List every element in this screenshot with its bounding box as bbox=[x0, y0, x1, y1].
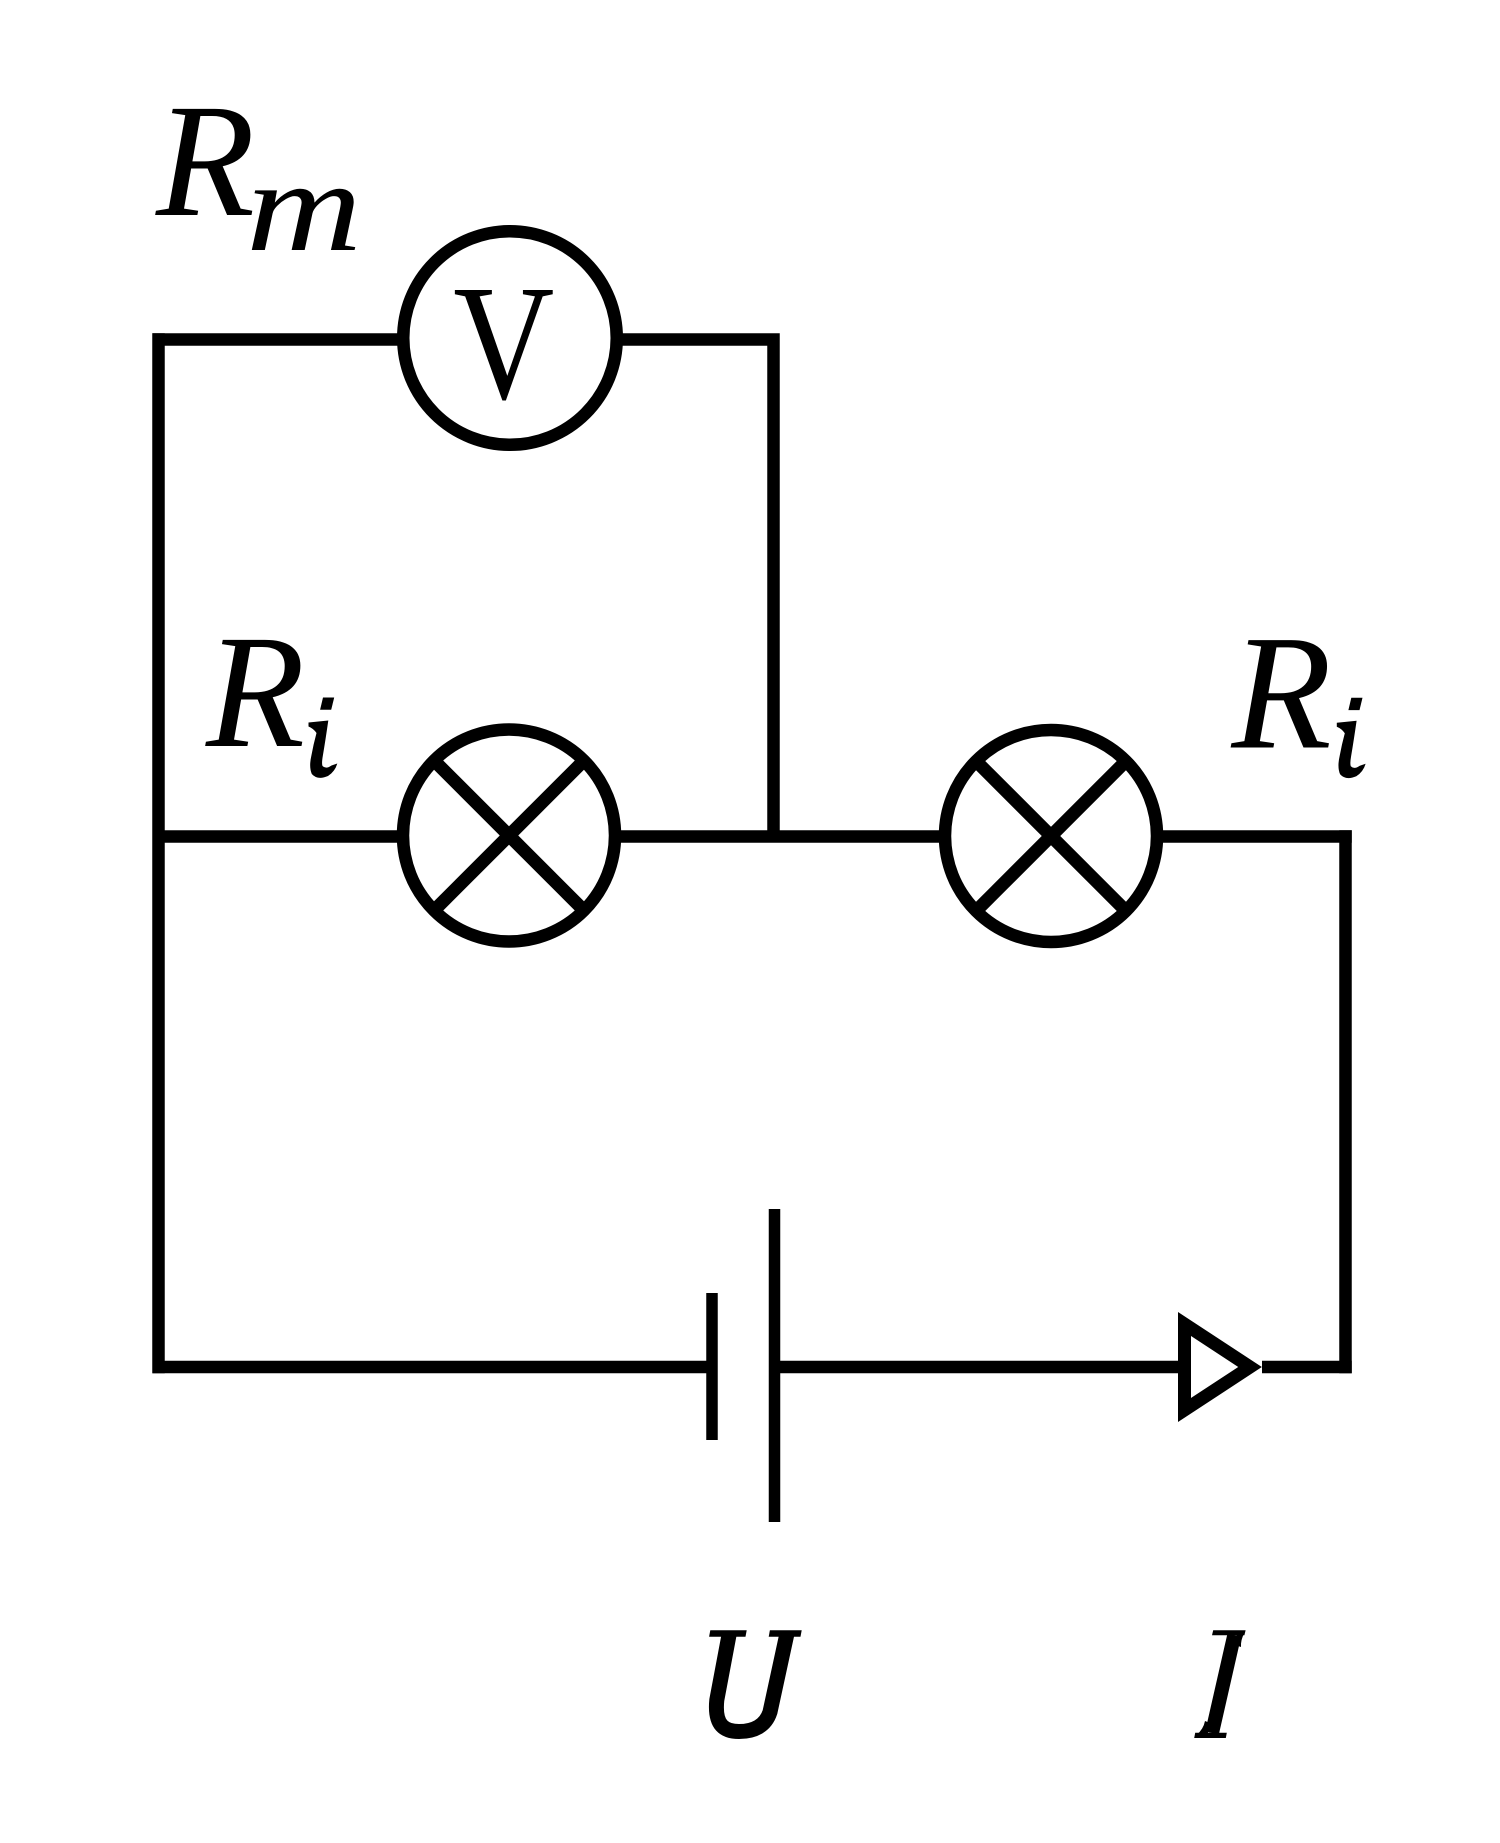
i dot bbox=[320, 698, 334, 710]
svg-text:m: m bbox=[246, 135, 362, 279]
I bottom serif bbox=[1194, 1733, 1227, 1738]
I top serif bbox=[1212, 1630, 1246, 1635]
wire: bottom horizontal from left branch to battery bbox=[153, 1361, 708, 1374]
wire: top horizontal from left branch to voltmeter bbox=[153, 333, 399, 346]
wire: middle horizontal from right lamp to right corner bbox=[1162, 830, 1352, 843]
wire: middle horizontal, left segment to lamp R_i bbox=[153, 830, 399, 843]
i dot bbox=[1348, 698, 1362, 710]
label U (battery voltage) bbox=[709, 1630, 802, 1731]
label I (current) bbox=[1194, 1630, 1245, 1738]
wire: right vertical branch bbox=[1339, 830, 1352, 1373]
svg-text:R: R bbox=[205, 603, 305, 782]
i body bbox=[309, 721, 338, 778]
lamp 1 cross stroke NW-SE bbox=[434, 761, 584, 911]
lamp 2 cross stroke NE-SW bbox=[976, 761, 1126, 911]
svg-text:V: V bbox=[453, 251, 554, 434]
wire: bottom horizontal from battery to current arrow bbox=[780, 1361, 1178, 1374]
battery long plate (positive) bbox=[769, 1209, 781, 1522]
lamp 2 cross stroke NW-SE bbox=[976, 761, 1126, 911]
U stems and bowl bbox=[716, 1633, 786, 1732]
U right top serif bbox=[769, 1630, 802, 1637]
U left top serif bbox=[709, 1630, 747, 1637]
voltmeter V circle bbox=[403, 231, 617, 445]
wire: voltmeter right to corner then down to middle wire bbox=[622, 340, 774, 837]
I bottom-left bracket bbox=[1197, 1721, 1211, 1735]
lamp 2 (R_i) circle bbox=[945, 730, 1157, 942]
wire: left vertical branch bbox=[152, 333, 165, 1373]
lamp 1 cross stroke NE-SW bbox=[434, 761, 584, 911]
wire: middle horizontal between the two lamps bbox=[620, 830, 940, 843]
current direction arrow (open triangle) on bottom wire bbox=[1185, 1324, 1251, 1410]
battery short plate (negative) bbox=[706, 1293, 718, 1440]
label R_i (left) : subscript i bbox=[309, 698, 338, 778]
wire: bottom horizontal from arrow to right corner bbox=[1262, 1361, 1352, 1374]
i body bbox=[1337, 721, 1366, 778]
svg-text:R: R bbox=[155, 72, 255, 251]
label R_i (right) : subscript i bbox=[1337, 698, 1366, 778]
lamp 1 (R_i) circle bbox=[403, 730, 615, 942]
I stem bbox=[1212, 1635, 1234, 1733]
svg-text:R: R bbox=[1231, 603, 1332, 784]
I top-right bracket bbox=[1235, 1633, 1244, 1647]
